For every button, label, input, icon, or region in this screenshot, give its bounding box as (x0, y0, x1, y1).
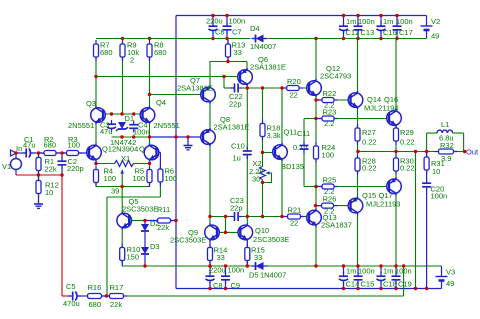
svg-text:680: 680 (44, 141, 57, 150)
resistor R1 (36, 154, 41, 175)
wire Q9-Q10 base line (217, 231, 241, 233)
junction (132, 135, 135, 138)
wire cap top lead (380, 266, 382, 274)
wire Q13 emitter column (315, 225, 317, 266)
svg-text:47u: 47u (100, 127, 113, 136)
wire Q12 emitter (315, 95, 317, 100)
capacitor C12 (339, 22, 348, 34)
junction (342, 14, 345, 17)
diode D4 (252, 35, 268, 43)
resistor R22 (318, 98, 338, 103)
resistor R21 (284, 214, 305, 219)
wire R29 to R30 (395, 141, 397, 158)
resistor R4 (94, 166, 99, 187)
diode D5 (252, 262, 268, 270)
resistor R31 (424, 153, 429, 174)
transistor Q4 (140, 106, 155, 124)
svg-text:D3: D3 (150, 242, 160, 251)
wire Q6 emitter (246, 62, 248, 70)
wire Q14 emitter to R27 (357, 108, 359, 129)
svg-text:100n: 100n (395, 267, 412, 276)
resistor R9 (120, 40, 125, 61)
wire Q3 collector (95, 77, 97, 108)
capacitor C15 (354, 272, 363, 284)
svg-text:C11: C11 (297, 129, 310, 138)
svg-text:2N5551: 2N5551 (154, 121, 180, 130)
wire R7 to node (95, 61, 97, 77)
battery V3 (436, 277, 448, 281)
svg-text:C5: C5 (66, 282, 76, 291)
resistor R16 (84, 294, 106, 299)
capacitor C2 (58, 157, 67, 169)
wire Q9 base riser (225, 217, 227, 233)
junction (110, 112, 113, 115)
junction (314, 37, 317, 40)
svg-text:1N4742: 1N4742 (110, 138, 136, 147)
svg-text:49: 49 (446, 279, 454, 288)
junction (148, 135, 151, 138)
svg-text:10: 10 (432, 167, 440, 176)
wire R9 bottom lead (122, 57, 124, 61)
resistor R6 (158, 165, 163, 186)
junction (226, 60, 229, 63)
wire R1 bottom lead (38, 171, 40, 176)
wire cap bottom lead (380, 32, 382, 39)
port In (11, 150, 17, 156)
wire R16 to R17 (102, 295, 110, 297)
junction (395, 14, 398, 17)
svg-text:Out: Out (466, 148, 479, 157)
wire C9 bottom lead (225, 282, 227, 289)
junction (379, 264, 382, 267)
junction (120, 135, 123, 138)
wire cap bottom lead (357, 282, 359, 289)
svg-text:X1: X1 (121, 154, 130, 163)
junction (261, 215, 264, 218)
junction (208, 264, 211, 267)
junction (261, 151, 264, 154)
wire Q17 to rail (395, 194, 397, 266)
wire C11 top lead (303, 119, 305, 144)
wire R23 left lead (316, 118, 322, 120)
resistor R10 (120, 244, 125, 265)
resistor R25 (318, 184, 338, 189)
svg-text:470u: 470u (63, 299, 80, 308)
wire feedback riser (403, 266, 405, 296)
svg-text:C6: C6 (215, 28, 225, 37)
trimmer X1 (115, 161, 134, 174)
wire -49 rail left (122, 265, 253, 267)
wire Q7 base line (150, 94, 204, 96)
wire Q4 emitter (149, 123, 151, 138)
wire R10 bottom lead (121, 261, 123, 267)
svg-text:Q11: Q11 (284, 128, 298, 137)
wire cap bottom lead (380, 282, 382, 289)
svg-text:R11: R11 (157, 205, 170, 214)
wire L1 right (453, 132, 464, 134)
wire Q9 collector (209, 217, 211, 226)
junction (425, 287, 428, 290)
junction (342, 37, 345, 40)
wire input return red (16, 174, 62, 176)
junction (148, 162, 151, 165)
wire L1 left (427, 132, 437, 134)
wire Q6 base line (96, 76, 240, 78)
resistor R26 (318, 203, 338, 208)
wire Q5 emitter to R10 (121, 228, 123, 248)
wire V2 bottom lead (426, 31, 428, 39)
junction (402, 264, 405, 267)
junction (121, 37, 124, 40)
resistor R23 (318, 116, 338, 121)
wire C10 top column (246, 88, 248, 149)
junction (314, 264, 317, 267)
junction (342, 287, 345, 290)
wire feedback red column (61, 175, 63, 296)
svg-text:MJL21193: MJL21193 (366, 200, 400, 209)
capacitor C11 (300, 141, 309, 153)
junction (246, 86, 249, 89)
resistor R12 (36, 177, 41, 198)
svg-text:R16: R16 (88, 283, 102, 292)
wire Q8 collector column (209, 145, 211, 217)
wire cap bottom lead (226, 31, 228, 39)
svg-text:2: 2 (130, 56, 134, 65)
wire feedback column (106, 197, 108, 296)
junction (414, 287, 417, 290)
junction (222, 75, 225, 78)
wire Q1 emitter (95, 160, 97, 164)
wire C11 bottom lead (303, 151, 305, 187)
wire R23 to Q16 base (334, 118, 389, 120)
junction (121, 185, 124, 188)
capacitor C7 (223, 22, 232, 34)
wire R12 top lead (38, 175, 40, 181)
svg-text:2N5551: 2N5551 (68, 121, 94, 130)
svg-text:22k: 22k (110, 300, 122, 309)
transistor Q8 (201, 128, 216, 146)
svg-text:2SA1381E: 2SA1381E (214, 123, 250, 132)
svg-text:0.22: 0.22 (362, 138, 377, 147)
svg-text:22: 22 (290, 91, 298, 100)
wire R12 to ground (38, 194, 40, 200)
wire C5 left lead (69, 295, 71, 297)
junction (280, 86, 283, 89)
junction (94, 75, 97, 78)
junction (379, 37, 382, 40)
wire cap bottom lead (396, 31, 398, 39)
source V1 (11, 159, 22, 170)
wire R25 left lead (316, 186, 322, 188)
ground (34, 200, 43, 209)
svg-text:47u: 47u (23, 141, 36, 150)
wire R7 bottom lead (95, 57, 97, 61)
junction (225, 37, 228, 40)
svg-text:R22: R22 (323, 89, 337, 98)
wire R20 line (282, 87, 309, 89)
svg-text:0.22: 0.22 (362, 164, 377, 173)
junction (394, 287, 397, 290)
transistor Q16 (387, 109, 402, 127)
battery V2 (421, 26, 433, 30)
junction (261, 86, 264, 89)
wire R26 to Q15 base (334, 205, 351, 207)
wire R8 bottom lead (149, 57, 151, 61)
svg-text:100: 100 (322, 151, 335, 160)
svg-text:C10: C10 (231, 142, 245, 151)
junction (174, 219, 177, 222)
svg-text:R17: R17 (110, 283, 124, 292)
svg-text:C9: C9 (231, 281, 241, 290)
wire Q8 base ground line (150, 136, 204, 138)
svg-text:V3: V3 (446, 268, 455, 277)
wire X2 top lead (262, 153, 264, 167)
svg-text:30: 30 (252, 175, 260, 184)
wire Q14 collector column (357, 39, 359, 93)
svg-text:22k: 22k (45, 165, 57, 174)
diode D3 (141, 247, 149, 254)
svg-text:D5: D5 (249, 271, 259, 280)
wire Q11 emitter (281, 160, 283, 217)
transistor Q9 (205, 223, 220, 241)
wire R4 bottom lead (95, 183, 97, 187)
junction (186, 135, 189, 138)
wire +49 rail right (268, 38, 427, 40)
wire V2 top lead (426, 16, 428, 27)
wire cap top lead (357, 266, 359, 275)
resistor R18 (260, 120, 265, 141)
svg-text:1N4007: 1N4007 (260, 271, 286, 280)
wire cap bottom lead (343, 32, 345, 39)
junction (463, 150, 466, 153)
svg-text:C7: C7 (232, 28, 242, 37)
svg-text:C19: C19 (398, 280, 412, 289)
transistor Q10 (238, 223, 253, 241)
capacitor C23 (230, 212, 242, 221)
svg-text:100n: 100n (229, 17, 246, 26)
svg-text:49: 49 (431, 32, 439, 41)
svg-text:R23: R23 (323, 108, 337, 117)
junction (105, 294, 108, 297)
junction (208, 215, 211, 218)
wire R15 bottom lead (246, 261, 248, 267)
resistor R30 (394, 154, 399, 175)
capacitor C1 (22, 149, 34, 158)
wire ground bottom rail (176, 288, 442, 290)
wire In to C1 (16, 152, 26, 154)
junction (246, 215, 249, 218)
wire L1 left riser (426, 133, 428, 152)
svg-text:D1: D1 (125, 114, 135, 123)
svg-text:2SC3503E: 2SC3503E (170, 236, 206, 245)
wire R18 to X2 (262, 137, 264, 153)
svg-text:150: 150 (127, 253, 140, 262)
junction (224, 287, 227, 290)
wire cap top lead (212, 16, 214, 25)
wire Q3-Q4 base line (104, 113, 143, 115)
svg-text:C17: C17 (399, 28, 413, 37)
resistor R27 (355, 124, 360, 145)
svg-text:2.2: 2.2 (324, 119, 334, 128)
wire cap top lead (357, 16, 359, 26)
junction (224, 264, 227, 267)
svg-text:V1: V1 (2, 162, 11, 171)
svg-text:C15: C15 (361, 280, 375, 289)
wire C9 top lead (225, 266, 227, 275)
transistor Q17 (387, 177, 402, 195)
capacitor C4 (129, 121, 138, 133)
junction (356, 37, 359, 40)
wire V3 bottom lead (441, 281, 443, 289)
wire R6 top lead (159, 152, 161, 169)
capacitor C6 (209, 22, 218, 34)
wire V3 top lead (441, 266, 443, 277)
junction (246, 264, 249, 267)
wire C10 bottom column (246, 157, 248, 217)
svg-text:100n: 100n (396, 17, 413, 26)
wire cap bottom lead (357, 31, 359, 39)
transistor Q15 (348, 197, 363, 215)
svg-text:220u: 220u (206, 17, 223, 26)
svg-text:22: 22 (290, 219, 298, 228)
svg-text:100n: 100n (431, 192, 448, 201)
wire Q5 collector (121, 187, 123, 214)
svg-text:1u: 1u (233, 154, 241, 163)
svg-text:100n: 100n (228, 266, 245, 275)
capacitor C16 (377, 22, 386, 34)
junction (224, 215, 227, 218)
svg-text:220p: 220p (67, 164, 84, 173)
wire D3 bottom lead (144, 255, 146, 266)
wire Q9 emitter to R14 (209, 240, 211, 248)
wire R21 to Q13 base (301, 216, 309, 218)
wire C22 riser (223, 77, 225, 89)
wire X1 left (96, 163, 115, 165)
junction (148, 37, 151, 40)
svg-text:2SA1837: 2SA1837 (321, 221, 352, 230)
wire cap top lead (396, 16, 398, 26)
wire V1 bottom lead (15, 170, 17, 176)
resistor R24 (314, 142, 319, 163)
junction (261, 181, 264, 184)
wire Q10 collector (246, 217, 248, 226)
wire -49 rail right (267, 265, 442, 267)
svg-text:100: 100 (104, 174, 117, 183)
wire output to ground rail (415, 152, 417, 289)
svg-text:10: 10 (45, 188, 53, 197)
svg-text:100: 100 (165, 174, 178, 183)
svg-text:1N4007: 1N4007 (250, 42, 276, 51)
capacitor C5 (69, 292, 81, 301)
svg-text:22p: 22p (229, 100, 242, 109)
junction (143, 264, 146, 267)
wire ground top rail (176, 15, 427, 17)
wire Q2 base to R6 (157, 151, 161, 153)
svg-text:V2: V2 (431, 17, 440, 26)
capacitor C17 (393, 22, 402, 34)
svg-text:22p: 22p (230, 204, 243, 213)
transistor Q13 (307, 209, 322, 227)
junction (148, 93, 151, 96)
resistor R32 (435, 149, 458, 154)
wire R31 to C20 (426, 170, 428, 182)
transistor Q3 (91, 106, 106, 124)
wire R31 top lead (426, 152, 428, 158)
capacitor C3 (107, 120, 116, 132)
wire R25 to Q17 base (334, 186, 389, 188)
wire C23 line left (210, 216, 234, 218)
wire cap top lead (343, 16, 345, 25)
resistor R7 (94, 40, 99, 61)
svg-text:100: 100 (133, 174, 146, 183)
resistor R11 (154, 218, 175, 223)
wire cap top lead (380, 16, 382, 25)
junction (60, 151, 63, 154)
svg-text:Q3: Q3 (86, 99, 96, 108)
junction (394, 264, 397, 267)
wire VAS node line (238, 87, 282, 89)
svg-text:2SC3503E: 2SC3503E (122, 205, 158, 214)
wire R24 to Q13 (315, 159, 317, 211)
svg-text:R29: R29 (400, 128, 414, 137)
svg-text:2SC4793: 2SC4793 (320, 72, 351, 81)
wire R22 to Q14 base (334, 99, 351, 101)
junction (37, 151, 40, 154)
wire Q11 base (263, 152, 274, 154)
svg-text:C18: C18 (383, 280, 397, 289)
wire to Out (454, 151, 465, 153)
svg-text:R26: R26 (323, 195, 337, 204)
svg-text:1m: 1m (383, 267, 393, 276)
wire cap top lead (395, 266, 397, 275)
wire C2 top lead (61, 153, 63, 160)
resistor R17 (106, 294, 128, 299)
wire C2 bottom lead (61, 166, 63, 175)
trimmer X2 (260, 167, 270, 180)
junction (224, 231, 227, 234)
wire V1 top lead (15, 153, 17, 159)
junction (356, 14, 359, 17)
wire R6 to feedback (107, 196, 160, 198)
wire C8 bottom lead (209, 282, 211, 289)
wire Q2 emitter (149, 160, 151, 164)
capacitor C19 (392, 272, 401, 284)
svg-text:2SA1381E: 2SA1381E (250, 63, 286, 72)
junction (342, 264, 345, 267)
junction (379, 287, 382, 290)
resistor R14 (208, 244, 213, 265)
wire tail node line (96, 186, 150, 188)
wire Q16 emitter (395, 126, 397, 129)
resistor R2 (40, 151, 60, 156)
wire C8 top lead (209, 266, 211, 274)
svg-text:C13: C13 (361, 28, 375, 37)
junction (174, 135, 177, 138)
diode D2 (141, 224, 149, 231)
wire +49 rail left (96, 38, 251, 40)
wire Q5 base to D2 (129, 220, 145, 222)
svg-text:2.2: 2.2 (324, 207, 334, 216)
wire Q6 collector (246, 85, 248, 89)
transistor Q1 (87, 144, 102, 162)
svg-text:D4: D4 (250, 24, 260, 33)
wire X2 to C23 line (262, 183, 264, 217)
junction (356, 287, 359, 290)
capacitor C13 (354, 22, 363, 34)
svg-text:1m: 1m (383, 17, 393, 26)
wire cap bottom lead (212, 32, 214, 39)
wire R6 bottom (159, 182, 161, 197)
